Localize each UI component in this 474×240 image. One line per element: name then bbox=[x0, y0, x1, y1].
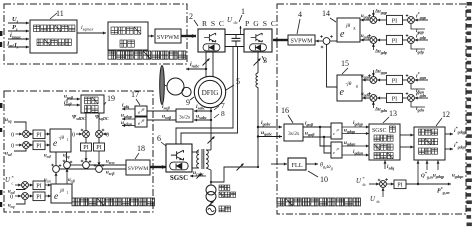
wires 13 to 12 bbox=[400, 134, 414, 136]
svg-text:Δugqn: Δugqn bbox=[374, 70, 388, 76]
svg-text:10: 10 bbox=[320, 175, 328, 184]
svg-text:3s/2s: 3s/2s bbox=[179, 115, 190, 121]
dq outputs bbox=[122, 108, 135, 110]
wire block14 to summer bbox=[330, 40, 337, 42]
feedback input i_gdn bbox=[411, 102, 425, 107]
svg-text:PI: PI bbox=[392, 39, 397, 45]
svg-text:19: 19 bbox=[107, 94, 115, 103]
3-phase slash rotor bbox=[203, 59, 210, 66]
wire to step-up transformer bbox=[210, 170, 212, 185]
generator DFIG bbox=[194, 76, 225, 107]
svg-text:SVPWM: SVPWM bbox=[128, 166, 149, 172]
PI flux d bbox=[85, 137, 87, 143]
svg-text:PI: PI bbox=[83, 145, 88, 151]
mixer Udc bbox=[380, 181, 387, 188]
svg-text:jθ: jθ bbox=[141, 108, 145, 112]
svg-text:dc: dc bbox=[377, 200, 381, 204]
svg-text:13: 13 bbox=[389, 109, 397, 118]
3-phase slash PGSC bbox=[254, 59, 261, 66]
left margin artifacts bbox=[0, 31, 2, 207]
current control row dp: mixers and PI bbox=[370, 37, 377, 44]
current control row qn: mixers and PI bbox=[370, 77, 377, 84]
svg-text:isdq: isdq bbox=[387, 164, 394, 171]
block: traditional vector control bbox=[108, 22, 148, 50]
svg-text:PI: PI bbox=[96, 145, 101, 151]
svg-text:e: e bbox=[340, 29, 345, 40]
FLL outputs bbox=[306, 163, 318, 165]
wires PI to summers bbox=[85, 151, 87, 161]
svg-text:dc: dc bbox=[363, 183, 367, 187]
dq outputs to block 13 bbox=[342, 126, 369, 128]
svg-text:igabc: igabc bbox=[261, 120, 271, 127]
svg-text:irabc: irabc bbox=[190, 62, 199, 69]
gearbox large wheel bbox=[167, 78, 184, 95]
dc wires to SGSC bbox=[176, 47, 233, 145]
reference input i*_gdp bbox=[415, 39, 428, 41]
svg-text:Δugqp: Δugqp bbox=[374, 10, 387, 16]
svg-text:0: 0 bbox=[11, 143, 14, 150]
svg-text:isαβ: isαβ bbox=[162, 104, 170, 111]
thick wire SVPWM18 to SGSC bbox=[150, 166, 166, 168]
wire to grid source bbox=[210, 202, 212, 206]
block 13: SGSC power calculation bbox=[369, 124, 400, 160]
svg-text:jθ: jθ bbox=[141, 119, 145, 123]
e^jtheta1 outputs up bbox=[55, 173, 57, 184]
block e^jtheta1 bbox=[51, 184, 72, 203]
grid AC source bbox=[206, 205, 216, 215]
svg-text:ucq: ucq bbox=[8, 204, 15, 210]
svg-text:jθ: jθ bbox=[336, 128, 340, 132]
svg-text:16: 16 bbox=[281, 106, 289, 115]
flux outputs Psi bbox=[85, 113, 87, 131]
label: parallel grid-side converter controller bbox=[277, 198, 360, 206]
svg-text:uscα: uscα bbox=[106, 160, 115, 166]
svg-text:ugdp: ugdp bbox=[361, 34, 370, 40]
PI Udc bbox=[394, 180, 406, 189]
svg-text:usαβ: usαβ bbox=[162, 114, 172, 121]
block 16: 3s/2s grid bbox=[284, 124, 303, 141]
svg-text:e: e bbox=[53, 139, 57, 149]
pos-seq dq block bbox=[331, 123, 342, 139]
PI Uc bbox=[33, 181, 45, 190]
svg-text:0: 0 bbox=[106, 132, 109, 139]
svg-text:ucβ: ucβ bbox=[68, 178, 76, 184]
input i_sdq bottom bbox=[384, 161, 386, 170]
svg-text:e: e bbox=[340, 87, 345, 98]
reference input i*_gqp bbox=[415, 19, 428, 21]
svg-text:usdqn: usdqn bbox=[121, 120, 133, 127]
input i_rmax bbox=[8, 38, 29, 40]
svg-text:6: 6 bbox=[157, 134, 161, 143]
reference input i*_gdn bbox=[415, 97, 428, 99]
label: rotor-side converter controller bbox=[108, 51, 186, 59]
input P_s bbox=[8, 30, 29, 32]
block e^-jtheta1 bbox=[50, 129, 71, 152]
rotor current tap i_rabc bbox=[205, 68, 207, 70]
block 11: reactive current reference calculation module bbox=[30, 20, 77, 53]
reference input i*_gqn bbox=[415, 79, 428, 81]
block 12: current reference calculation module bbox=[414, 127, 445, 160]
svg-text:SGSC: SGSC bbox=[170, 174, 188, 182]
svg-text:0: 0 bbox=[10, 194, 13, 201]
mixer Uc bbox=[22, 182, 29, 189]
summer alpha2 bbox=[83, 162, 90, 169]
svg-text:jθ: jθ bbox=[336, 147, 340, 151]
converter SGSC bbox=[166, 144, 192, 172]
U_dc feedback bbox=[382, 188, 384, 197]
feedback input i_gqp bbox=[411, 24, 425, 29]
svg-text:ucabc: ucabc bbox=[193, 170, 204, 177]
svg-text:17: 17 bbox=[131, 90, 139, 99]
svg-text:c: c bbox=[12, 181, 14, 186]
dq transform blocks 17 bbox=[135, 106, 147, 116]
feedforward wire du_gqp bbox=[372, 10, 374, 16]
series injection transformer bbox=[197, 150, 199, 155]
svg-text:isdq: isdq bbox=[122, 103, 129, 110]
svg-text:PI: PI bbox=[392, 97, 397, 103]
svg-text:isqmax: isqmax bbox=[81, 25, 94, 32]
svg-text:igdqn: igdqn bbox=[353, 149, 364, 156]
summer to SVPWM4 bbox=[323, 38, 330, 45]
svg-text:isαβ: isαβ bbox=[64, 100, 72, 107]
feedforward wire du_gdn bbox=[372, 102, 374, 108]
svg-text:usabc: usabc bbox=[196, 114, 207, 121]
summer beta1 bbox=[53, 166, 60, 173]
grid alpha-beta wires bbox=[303, 126, 331, 128]
svg-text:usαβ: usαβ bbox=[64, 94, 74, 101]
svg-text:e: e bbox=[333, 150, 335, 155]
filter inductor bbox=[256, 73, 258, 77]
svg-text:14: 14 bbox=[322, 9, 330, 18]
feedback input i_gqn bbox=[411, 84, 425, 89]
block FLL bbox=[288, 158, 306, 170]
svg-text:igdn: igdn bbox=[416, 106, 425, 113]
feedforward wire du_gdp bbox=[372, 44, 374, 50]
svg-text:DFIG: DFIG bbox=[202, 89, 219, 97]
summer beta2 bbox=[96, 166, 103, 173]
FLL input wire bbox=[271, 163, 287, 165]
svg-text:jθ: jθ bbox=[345, 23, 350, 29]
svg-text:9: 9 bbox=[186, 98, 190, 107]
feedback input i_gdp bbox=[411, 44, 425, 49]
block 3s/2s stator bbox=[176, 109, 193, 122]
neg-seq dq block bbox=[331, 142, 342, 158]
svg-text:dc: dc bbox=[234, 20, 238, 25]
svg-text:usq: usq bbox=[5, 117, 12, 124]
PI flux q bbox=[98, 137, 100, 143]
wire vector-control to SVPWM bbox=[148, 35, 154, 37]
3-phase slash on PCC wire bbox=[237, 164, 244, 171]
output i_sqmax wire bbox=[77, 32, 106, 34]
label: series grid-side converter controller bbox=[72, 198, 154, 206]
summer output to SVPWM4 bbox=[316, 40, 324, 42]
right margin cut text artifacts bbox=[467, 2, 472, 226]
stator taps i_sabc u_sabc bbox=[210, 110, 212, 112]
mixer zero bbox=[22, 193, 29, 200]
grid current tap i_gabc bbox=[257, 126, 259, 128]
mixer row1 bbox=[23, 131, 30, 138]
block 15: e^-jtheta_g bbox=[337, 75, 362, 101]
feedforward wire du_gqn bbox=[372, 70, 374, 76]
rotor-side converter controller box bbox=[4, 4, 187, 64]
svg-text:e: e bbox=[333, 131, 335, 136]
svg-text:-jθ: -jθ bbox=[59, 136, 65, 141]
mixer flux d bbox=[83, 131, 90, 138]
svg-text:-jθ: -jθ bbox=[346, 81, 352, 87]
svg-text:PI: PI bbox=[36, 184, 41, 190]
svg-text:ucα: ucα bbox=[44, 178, 52, 184]
svg-text:uscβ: uscβ bbox=[106, 171, 115, 177]
output wire P*_g,av bbox=[406, 183, 451, 185]
svg-text:11: 11 bbox=[56, 9, 64, 18]
u_sc beta wire bbox=[59, 168, 95, 170]
u_sc alpha wire bbox=[70, 164, 82, 166]
block SVPWM 18 bbox=[126, 160, 150, 175]
thick wire SVPWM4 to PGSC bbox=[273, 39, 288, 41]
dc link rails bbox=[225, 34, 244, 36]
thick wire SVPWM to RSC bbox=[181, 35, 196, 37]
svg-text:ΨsdDC: ΨsdDC bbox=[72, 115, 86, 122]
svg-text:isabc: isabc bbox=[196, 104, 205, 111]
dc link capacitor bbox=[235, 35, 237, 39]
svg-text:0: 0 bbox=[72, 132, 75, 139]
block 14: e^jtheta_g bbox=[337, 18, 360, 42]
input Im, Is bbox=[8, 46, 29, 48]
PI row2 bbox=[33, 141, 45, 150]
svg-text:igdp: igdp bbox=[416, 48, 424, 55]
current control row dn: mixers and PI bbox=[370, 95, 377, 102]
svg-text:e: e bbox=[54, 192, 58, 202]
svg-text:jθ: jθ bbox=[59, 189, 64, 194]
svg-text:Δugdp: Δugdp bbox=[374, 50, 387, 56]
svg-text:ugdqn: ugdqn bbox=[452, 174, 464, 180]
svg-text:12: 12 bbox=[442, 110, 450, 119]
svg-text:3s/2s: 3s/2s bbox=[288, 131, 299, 137]
svg-text:15: 15 bbox=[341, 59, 349, 68]
block 19: flux observer bbox=[81, 95, 104, 113]
svg-text:usd: usd bbox=[5, 151, 13, 158]
svg-text:0: 0 bbox=[11, 132, 14, 139]
svg-text:PI: PI bbox=[392, 79, 397, 85]
PGSC wire to PCC bbox=[257, 87, 259, 167]
wire block15 to summer bbox=[327, 45, 338, 88]
wire up into block 12 bbox=[417, 161, 419, 185]
branch to negative-seq block bbox=[320, 127, 331, 146]
wind turbine blade bbox=[160, 66, 165, 105]
svg-text:PI: PI bbox=[36, 195, 41, 201]
summer alpha1 bbox=[64, 162, 71, 169]
svg-text:SVPWM: SVPWM bbox=[290, 39, 313, 45]
PI row1 bbox=[33, 130, 45, 139]
svg-text:ucd: ucd bbox=[44, 154, 52, 160]
step-up transformer bbox=[206, 185, 216, 195]
rotor wires RSC to DFIG bbox=[205, 52, 207, 77]
parallel grid-side converter controller box bbox=[277, 4, 466, 214]
svg-text:1: 1 bbox=[67, 191, 69, 195]
svg-text:FLL: FLL bbox=[291, 162, 302, 169]
shaft bbox=[164, 85, 167, 86]
PGSC output wire bbox=[257, 52, 259, 73]
svg-text:igαβ: igαβ bbox=[305, 121, 314, 128]
gearbox small wheel bbox=[182, 87, 191, 96]
svg-text:18: 18 bbox=[137, 144, 145, 153]
bottom inputs Q and u bbox=[426, 161, 428, 171]
svg-text:4: 4 bbox=[298, 10, 302, 19]
label step-up transformer bbox=[219, 185, 230, 190]
svg-text:1: 1 bbox=[67, 138, 69, 142]
svg-text:ugdqn: ugdqn bbox=[344, 140, 356, 147]
outputs i*_gdqp i*_gdqn bbox=[445, 133, 453, 135]
PI row2b bbox=[33, 192, 45, 201]
grid voltage tap u_gabc bbox=[257, 135, 259, 137]
stator wire bbox=[210, 108, 212, 151]
block SVPWM (rotor) bbox=[155, 29, 181, 43]
branch wires to flux observer bbox=[67, 98, 80, 100]
svg-text:RSC: RSC bbox=[202, 19, 224, 28]
svg-text:g: g bbox=[354, 26, 356, 30]
svg-text:ugqp: ugqp bbox=[361, 14, 370, 20]
mixer flux q bbox=[96, 131, 103, 138]
svg-text:1: 1 bbox=[241, 7, 245, 16]
svg-text:ΨsqDC: ΨsqDC bbox=[95, 115, 109, 122]
stator alpha-beta wires to dq blocks bbox=[147, 110, 176, 112]
svg-text:SVPWM: SVPWM bbox=[157, 35, 180, 41]
mixer row2 bbox=[23, 142, 30, 149]
svg-text:igdqp: igdqp bbox=[353, 120, 363, 127]
svg-text:ugdqp: ugdqp bbox=[433, 174, 444, 180]
svg-text:PI: PI bbox=[392, 19, 397, 25]
svg-text:SGSC: SGSC bbox=[372, 128, 387, 134]
svg-text:ugdqp: ugdqp bbox=[344, 128, 355, 135]
svg-text:g: g bbox=[356, 84, 358, 88]
svg-text:PI: PI bbox=[36, 144, 41, 150]
injected voltage label u_cabc bbox=[190, 175, 206, 177]
e^-jtheta1 outputs down bbox=[55, 152, 57, 165]
svg-text:PI: PI bbox=[397, 183, 402, 189]
svg-text:2: 2 bbox=[189, 12, 193, 21]
current control row qp: mixers and PI bbox=[370, 17, 377, 24]
3-phase slash stator bbox=[208, 137, 215, 144]
input U_s bbox=[8, 22, 29, 24]
label grid bbox=[219, 206, 231, 212]
series grid-side converter controller box bbox=[4, 91, 153, 212]
svg-text:ucq: ucq bbox=[63, 154, 70, 160]
svg-text:8: 8 bbox=[221, 109, 225, 118]
svg-text:usdqp: usdqp bbox=[121, 113, 132, 120]
svg-text:ugabc: ugabc bbox=[261, 130, 272, 137]
svg-text:5: 5 bbox=[236, 77, 240, 86]
svg-text:Δugdn: Δugdn bbox=[374, 108, 388, 114]
svg-text:3: 3 bbox=[263, 56, 267, 65]
transformer connections bbox=[192, 151, 199, 153]
svg-text:ugαβ: ugαβ bbox=[305, 131, 315, 138]
svg-text:PI: PI bbox=[36, 133, 41, 139]
block SVPWM (parallel) bbox=[288, 35, 315, 45]
